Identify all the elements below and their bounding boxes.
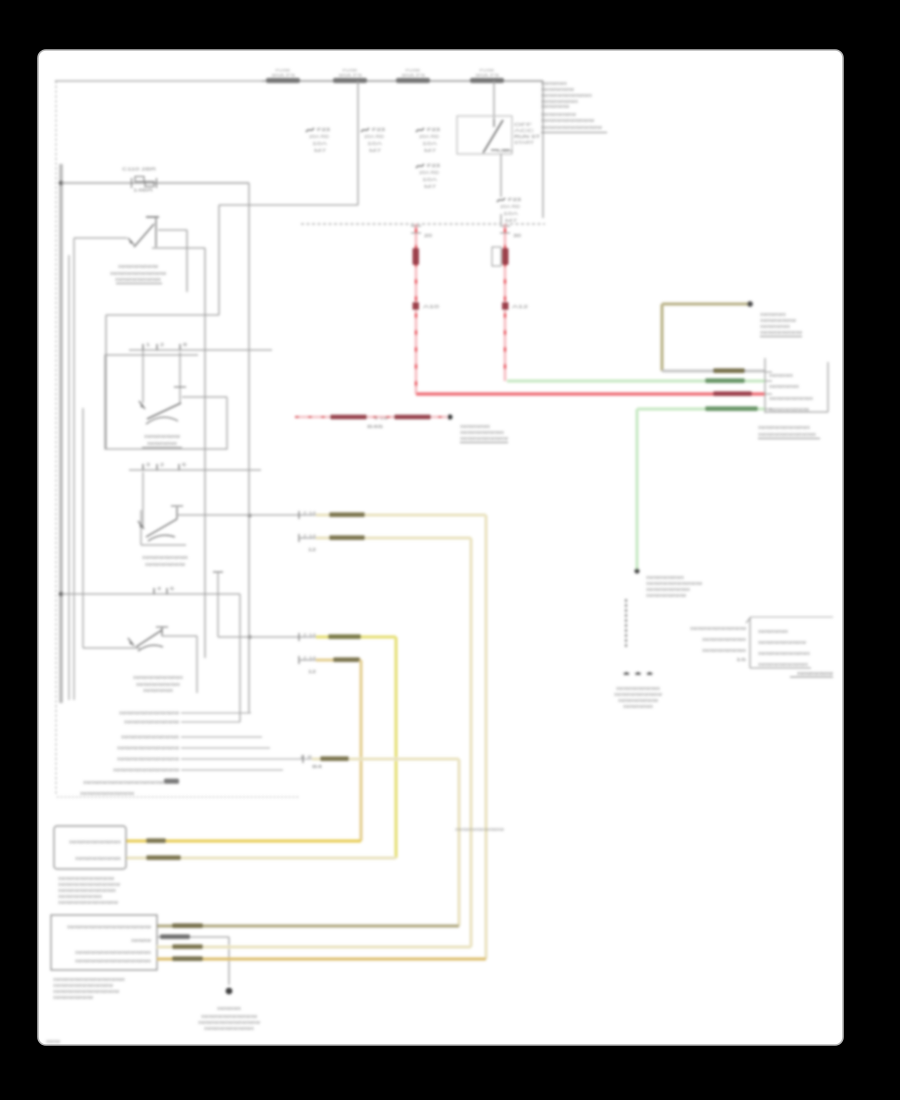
svg-text:XWXMXWXMX: XWXMXWXMX	[147, 441, 177, 446]
svg-text:XWXMXWX: XWXMXWX	[769, 373, 793, 378]
wire bus drop to TIPM left	[357, 81, 359, 205]
svg-text:XWXMXWX: XWXMXWX	[541, 81, 567, 86]
svg-text:XWXMXWXMXWXMX: XWXMXWXMXWXMX	[58, 894, 102, 899]
svg-text:XWXMXWXMXWXMXWXM: XWXMXWXMXWXMXWXM	[124, 720, 179, 725]
node junction dot feed	[59, 181, 64, 186]
wire green y381 to SCM	[507, 379, 765, 382]
svg-text:XWXMXWXMXWXMXWXM: XWXMXWXMXWXMXWXM	[110, 271, 166, 276]
pin 6 row3	[166, 588, 168, 594]
svg-text:XWXMXWXM: XWXMXWXM	[541, 104, 569, 109]
svg-text:XWXMXWXMXWXMXWXMX: XWXMXWXMXWXMXWXMX	[758, 432, 816, 437]
wire terminal row y759 (park switch)	[181, 758, 312, 760]
node junction dot lower	[59, 592, 64, 597]
pin 3 row2	[142, 464, 144, 470]
svg-text:XWXMXWXMXWXM: XWXMXWXMXWXM	[53, 995, 93, 1000]
svg-text:A10: A10	[423, 304, 440, 309]
connector SCM bracket	[764, 358, 766, 413]
svg-text:XWXMXWXMXWXMXWXMXW: XWXMXWXMXWXMXWXMXW	[53, 983, 114, 988]
svg-text:10A: 10A	[422, 141, 438, 146]
svg-text:30A F5: 30A F5	[401, 73, 426, 78]
svg-text:A12: A12	[512, 304, 529, 309]
svg-text:20A RD: 20A RD	[500, 204, 520, 209]
svg-text:XWXMXWXMXWXMX: XWXMXWXMXWXMX	[136, 682, 180, 687]
fuse F5	[497, 198, 505, 202]
relay K2 switch arm	[147, 403, 181, 419]
svg-text:2 8: 2 8	[300, 755, 312, 759]
svg-text:M7: M7	[505, 218, 519, 223]
svg-text:XWXMXWXMXWXMXWXMXWXM: XWXMXWXMXWXMXWXMXWXM	[113, 768, 179, 773]
wire wiper feed y637	[213, 571, 223, 573]
svg-text:START: START	[514, 140, 535, 145]
wire top power bus	[55, 80, 543, 82]
svg-text:XWXMXWXMXW: XWXMXWXMXW	[541, 112, 577, 117]
svg-text:F23: F23	[372, 127, 386, 132]
svg-text:XWXMXWXMXWXMXWXMXW: XWXMXWXMXWXMXWXMXW	[58, 900, 119, 905]
svg-text:846: 846	[367, 424, 385, 429]
svg-text:XWXMXWXMXWXMX: XWXMXWXMXWXMX	[702, 648, 746, 653]
wire pin8 drop into K2	[179, 352, 181, 404]
svg-text:XWXMXWXMXWXMXWX: XWXMXWXMXWXMXWX	[541, 93, 592, 98]
svg-text:2 14: 2 14	[303, 511, 316, 515]
svg-text:XWXMXWXMX: XWXMXWXMX	[758, 629, 788, 634]
svg-text:XWXMXWXMXWXMXWXM: XWXMXWXMXWXMXWXM	[80, 791, 134, 796]
relay washer pump (K3)	[142, 472, 144, 527]
wire olive y926 to module B	[157, 924, 459, 927]
fuse F3	[416, 128, 424, 132]
svg-text:XWXMXWXMXWXMXWX: XWXMXWXMXWXMXWX	[133, 675, 183, 680]
svg-text:XWXMXWXMXWXMXWX: XWXMXWXMXWXMXWX	[69, 840, 121, 845]
svg-text:XWXMXWXMXWXM: XWXMXWXMXWXM	[760, 330, 802, 335]
svg-text:XWXMXWXMXWXMXWXMXWXMXWX: XWXMXWXMXWXMXWXMXWXMXWX	[75, 959, 151, 964]
pin 8 row1	[179, 344, 181, 350]
pin 6 row2	[178, 464, 180, 470]
wire bright yellow vertical x396	[394, 637, 397, 858]
svg-text:OFF: OFF	[514, 122, 533, 127]
svg-text:20: 20	[424, 233, 433, 238]
relay wiper on/off box (K2)	[105, 355, 227, 449]
svg-text:F23: F23	[427, 127, 441, 132]
svg-text:XWXMXWX: XWXMXWX	[217, 1006, 241, 1011]
svg-text:XWXMXWXMXW: XWXMXWXMXW	[760, 318, 797, 323]
wire bus drop to ignition switch	[493, 81, 495, 119]
svg-text:XWXMXWXMXWXMXW: XWXMXWXMXWXMXW	[455, 827, 504, 832]
svg-text:XWXMXWXMXWXM: XWXMXWXMXWXM	[618, 698, 658, 703]
wire red radio suppression y417	[295, 416, 447, 418]
svg-text:XWXMXWXMXWXMXWXM: XWXMXWXMXWXMXWXM	[541, 118, 594, 123]
wire red vertical x505	[504, 224, 507, 381]
svg-text:XWXMXWXMXWXMX: XWXMXWXMXWXMX	[769, 396, 813, 401]
svg-text:XWXMXWXMX: XWXMXWXMX	[623, 704, 653, 709]
svg-text:* * *: * * *	[623, 671, 655, 680]
svg-text:84: 84	[312, 764, 323, 769]
wire relay S1 upper right	[158, 229, 187, 231]
svg-text:XWXMXWXMXWXM: XWXMXWXMXWXM	[145, 562, 185, 567]
node olive arrow dot	[747, 301, 753, 307]
svg-text:20A RD: 20A RD	[309, 134, 329, 139]
svg-text:XWXMXWXMXWXM: XWXMXWXMXWXM	[118, 264, 158, 269]
svg-text:30A F5: 30A F5	[271, 73, 296, 78]
wire pin row y350	[129, 349, 272, 351]
svg-text:XWXMXWXMXWXMXW: XWXMXWXMXWXMXW	[614, 692, 663, 697]
relay wiper high/low (switch S1)	[146, 216, 159, 218]
svg-text:C110 2BR: C110 2BR	[122, 167, 156, 172]
wire tan vertical x361	[359, 660, 362, 841]
svg-text:XWXMXWXMXW: XWXMXWXMXW	[144, 434, 181, 439]
svg-text:XWXMXWXMXWXMXWXMX: XWXMXWXMXWXMXWXMX	[121, 735, 179, 740]
svg-text:30A F5: 30A F5	[338, 73, 363, 78]
wire terminal row y748	[181, 747, 270, 749]
wire green vertical x637 to cluster splice	[635, 409, 638, 570]
node splice dot	[634, 568, 639, 573]
wire tan y959 to module B	[157, 957, 486, 960]
wire relay S1 lower right	[152, 247, 205, 249]
node junction wire y516 x250	[248, 514, 252, 518]
svg-text:XWXMXWXMXW: XWXMXWXMXW	[541, 87, 575, 92]
svg-text:XWXMXWXMXWXMXWX: XWXMXWXMXWXMXWX	[758, 651, 810, 656]
wire dashed connector line C bottom of TIPM	[301, 223, 545, 225]
ignition switch box	[457, 116, 512, 154]
svg-text:10A: 10A	[422, 177, 438, 182]
svg-text:XWXMXWXMXWXMX: XWXMXWXMXWXMX	[460, 430, 504, 435]
wire olive to SC switch module	[662, 302, 748, 305]
svg-text:XWXMXWXMXWXMXWXMXW: XWXMXWXMXWXMXWXMXW	[117, 746, 180, 751]
svg-text:XWXMXWXMXWXMXWXM: XWXMXWXMXWXMXWXM	[58, 876, 114, 881]
svg-text:2 14: 2 14	[303, 656, 316, 660]
svg-text:XWXMXWXMXWXM: XWXMXWXMXWXM	[769, 407, 809, 412]
svg-text:XWXMXWXMX: XWXMXWXMX	[769, 384, 799, 389]
wire long vertical x249	[248, 183, 250, 713]
wire terminal row y737	[181, 736, 262, 738]
svg-text:XWXMXWXMXWXMX: XWXMXWXMXWXMX	[75, 856, 121, 861]
svg-text:10A: 10A	[503, 211, 519, 216]
svg-text:2 14: 2 14	[303, 534, 316, 538]
ignition switch lower terminal	[491, 149, 510, 151]
ground arrow	[226, 988, 233, 995]
wire cluster top line	[751, 616, 833, 618]
wire red vertical x416 (fused run)	[415, 224, 418, 394]
connector cluster bracket	[749, 617, 751, 668]
fuse F4	[416, 164, 424, 168]
svg-text:XWXMXWXMXWXMXWXM: XWXMXWXMXWXMXWXM	[646, 581, 702, 586]
wire bus right corner down	[542, 81, 544, 218]
svg-text:XWXMXWXMXWXMXWXMXWXMXWX: XWXMXWXMXWXMXWXMXWXMXWX	[75, 950, 151, 955]
svg-text:XWXMXWXMXWXMXWX: XWXMXWXMXWXMXWX	[204, 1026, 254, 1031]
fuse F2	[361, 128, 369, 132]
wire terminal row y770	[181, 769, 283, 771]
svg-text:12: 12	[308, 547, 317, 552]
wire washer vertical x471	[469, 538, 472, 947]
fuse F1	[306, 128, 314, 132]
svg-text:16: 16	[736, 657, 747, 662]
svg-text:ACC: ACC	[514, 128, 534, 133]
module B box (front wiper motor)	[51, 915, 157, 970]
svg-text:M7: M7	[314, 148, 328, 153]
wire washer y538	[298, 534, 300, 542]
svg-text:XWXMXWXMXWXMXWXMXWXMX: XWXMXWXMXWXMXWXMXWXMX	[53, 977, 125, 982]
svg-text:XWXMXWXMX: XWXMXWXMX	[460, 424, 490, 429]
svg-text:XWXMXWXMXWXM: XWXMXWXMXWXM	[646, 593, 686, 598]
svg-text:20A RD: 20A RD	[419, 170, 439, 175]
svg-text:XWXMXWXMXWXMXWXMXW: XWXMXWXMXWXMXWXMXW	[541, 125, 603, 130]
svg-text:XWXMXWXMXWXMXWXMXWXM: XWXMXWXMXWXMXWXMXWXM	[53, 989, 119, 994]
wire washer pump feed y515	[177, 514, 318, 516]
wire CAN bus vertical	[625, 599, 627, 647]
svg-text:12: 12	[308, 669, 317, 674]
wire pin row y470	[129, 469, 261, 471]
svg-text:XWXMXWXMXWXMXWXMXW: XWXMXWXMXWXMXWXMXW	[119, 711, 180, 716]
svg-text:XWXMXWXMXW: XWXMXWXMXW	[797, 671, 834, 676]
svg-text:F23: F23	[317, 127, 331, 132]
svg-text:XWXMXWXMX: XWXMXWXMX	[143, 688, 173, 693]
node junction wire y637 x250	[248, 635, 252, 639]
svg-text:XWXMXWXMXWXMXW: XWXMXWXMXWXMXW	[460, 436, 509, 441]
wire ground from module B y937	[157, 936, 229, 938]
svg-text:XWXMXWXMXWX: XWXMXWXMXWX	[646, 575, 684, 580]
svg-text:30: 30	[513, 233, 522, 238]
pin 1 row1	[142, 344, 144, 350]
wire K2 out right	[182, 396, 227, 398]
svg-text:10A: 10A	[367, 141, 383, 146]
wire gray y371 into SCM	[662, 370, 765, 373]
wire feed y183	[61, 182, 249, 184]
svg-text:XWXMXWX: XWXMXWX	[760, 312, 786, 317]
svg-text:2 14: 2 14	[303, 633, 316, 637]
svg-text:10A: 10A	[312, 141, 328, 146]
svg-text:F23: F23	[427, 163, 441, 168]
svg-text:XWXMXWXMXWXMXWXMXW: XWXMXWXMXWXMXWXMXW	[198, 1020, 261, 1025]
svg-text:XWXMXWXMXWXMXWXMXW: XWXMXWXMXWXMXWXMXW	[58, 882, 121, 887]
svg-text:XWXMXWXMXWXMXWXM: XWXMXWXMXWXMXWXM	[201, 1014, 257, 1019]
wire inner verticals	[68, 255, 70, 700]
svg-text:XWXMXWXMXWXMX: XWXMXWXMXWXMX	[115, 277, 161, 282]
wire y858 to module A	[126, 856, 396, 859]
svg-text:XWXMXWXMXWXMX: XWXMXWXMXWXMX	[646, 587, 690, 592]
pin 2 row1	[156, 344, 158, 350]
wire relay S1 left	[74, 237, 127, 239]
wire y841 to module A	[126, 839, 361, 842]
svg-text:XWXMXWXMXWXMXWXMXW: XWXMXWXMXWXMXWXMXW	[117, 757, 180, 762]
module A box (wiper control)	[54, 826, 126, 869]
wire terminal row y722	[181, 721, 240, 723]
svg-text:XWXM: XWXM	[46, 1039, 61, 1044]
ignition switch arm	[483, 120, 503, 153]
pin 4 row3	[153, 588, 155, 594]
svg-text:RUN ST: RUN ST	[514, 134, 541, 139]
wire pin1 drop into K2	[142, 350, 144, 403]
svg-text:14BR: 14BR	[133, 188, 153, 193]
svg-text:30A F5: 30A F5	[475, 73, 500, 78]
svg-text:IGN: IGN	[497, 148, 513, 153]
wire ignition switch to fuse	[500, 154, 502, 197]
wire left bus vertical	[59, 164, 63, 703]
wire pale y947 to module B	[157, 945, 471, 948]
wire x240 down	[239, 594, 241, 722]
svg-text:XWXMXWXMXWXMXW: XWXMXWXMXWXMXW	[758, 640, 807, 645]
svg-text:XWXMXWXMXWXMXWXMXWXMXWXM: XWXMXWXMXWXMXWXMXWXMXWXM	[67, 925, 151, 930]
svg-text:XWXMXWXMX: XWXMXWXMX	[760, 324, 790, 329]
svg-text:M7: M7	[369, 148, 383, 153]
connector C1 inline	[132, 178, 157, 188]
wire red horizontal y394 to SCM	[416, 392, 765, 395]
wire terminal row y713	[181, 712, 251, 714]
svg-text:XWXMXWXMXWXMX: XWXMXWXMXWXMX	[702, 637, 746, 642]
svg-text:3 1B: 3 1B	[374, 417, 389, 421]
switch intermittent wiper (S4)	[83, 647, 140, 649]
svg-text:XWXMXWXMXWXMXWX: XWXMXWXMXWXMXWX	[758, 662, 808, 667]
wire green y409 to SCM	[637, 407, 765, 410]
svg-text:M7: M7	[424, 148, 438, 153]
pin 2 row2	[156, 464, 158, 470]
svg-text:XWXMXWXMXWXMX: XWXMXWXMXWXMX	[616, 686, 660, 691]
svg-text:20A RD: 20A RD	[419, 134, 439, 139]
wire washer vertical x486	[484, 515, 487, 959]
svg-text:XWXMXWXMXWXMXWXMX: XWXMXWXMXWXMXWXMX	[58, 888, 116, 893]
node bus corner left	[55, 81, 57, 795]
wire wiper y660	[298, 656, 300, 664]
svg-text:XWXMXWXMXWXMXWXM: XWXMXWXMXWXMXWXM	[690, 626, 746, 631]
wire pin row y594	[61, 593, 240, 595]
wire cream vertical x459	[457, 759, 460, 926]
svg-text:XWXMXW: XWXMXW	[131, 938, 152, 943]
svg-text:XWXMXWXMXWXMXWX: XWXMXWXMXWXMXWX	[758, 425, 810, 430]
svg-text:M7: M7	[424, 184, 438, 189]
wire S4 out right	[162, 635, 197, 637]
svg-text:20A RD: 20A RD	[364, 134, 384, 139]
wire dashed module boundary bottom	[57, 796, 299, 798]
connector SCM pin stubs	[765, 372, 772, 409]
svg-text:XWXMXWXMXWXMX: XWXMXWXMXWXMX	[142, 555, 188, 560]
svg-text:F23: F23	[508, 197, 522, 202]
